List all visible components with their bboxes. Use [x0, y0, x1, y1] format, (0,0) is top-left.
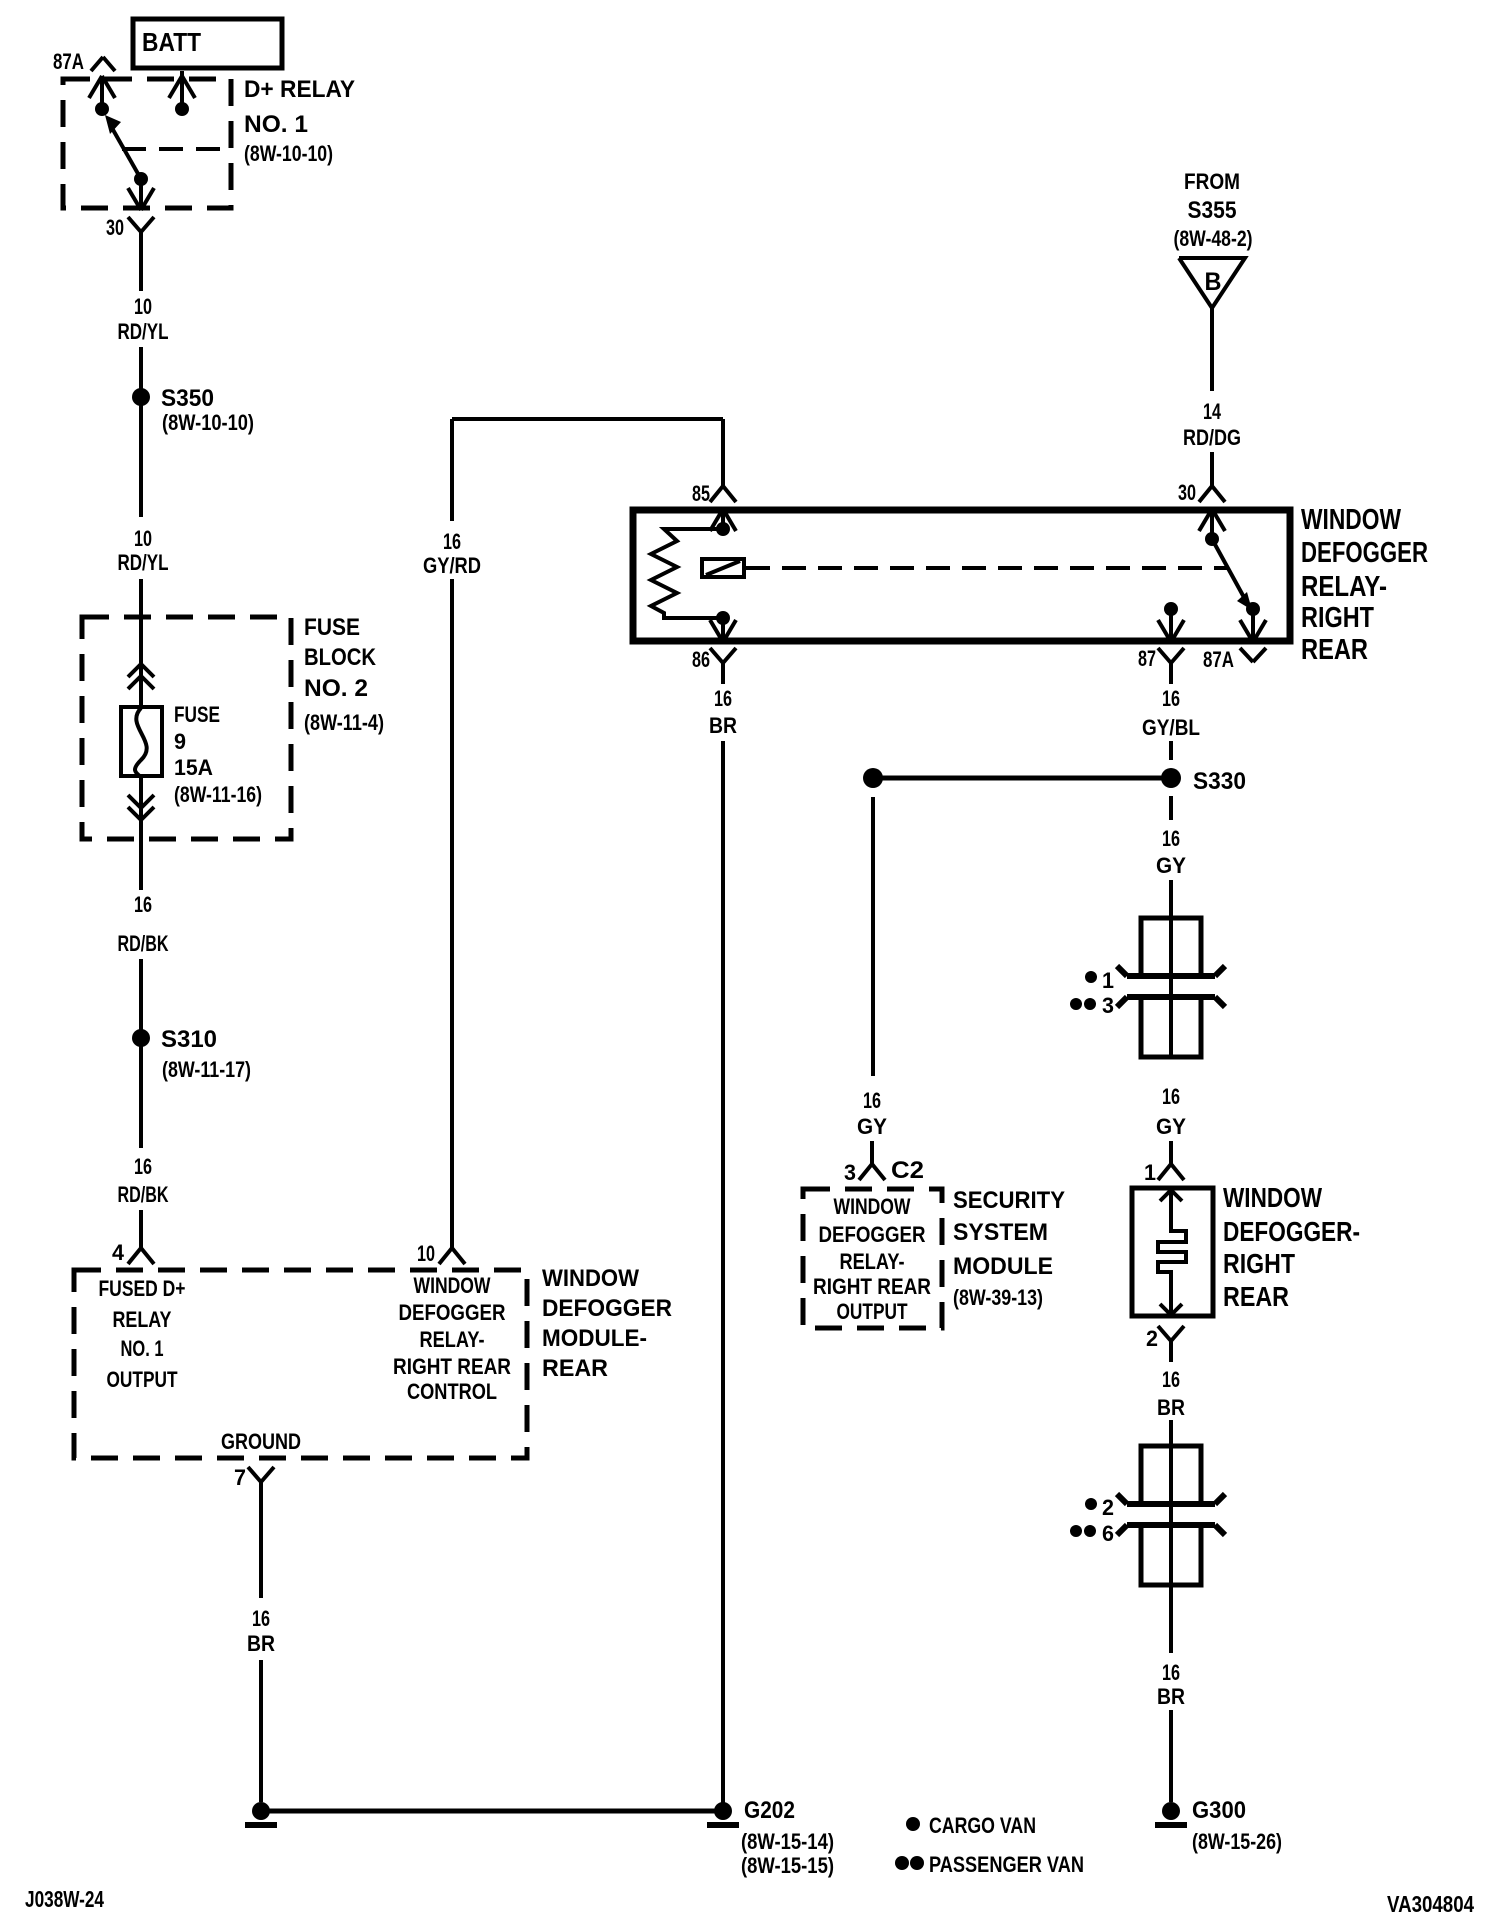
svg-text:RIGHT REAR: RIGHT REAR	[393, 1354, 511, 1379]
svg-text:WINDOW: WINDOW	[542, 1265, 639, 1292]
svg-text:SYSTEM: SYSTEM	[953, 1219, 1048, 1246]
svg-text:RD/BK: RD/BK	[118, 1182, 169, 1207]
svg-text:S330: S330	[1193, 768, 1246, 795]
svg-text:S310: S310	[161, 1026, 217, 1053]
svg-text:16: 16	[443, 529, 461, 554]
svg-text:16: 16	[134, 892, 152, 917]
svg-text:1: 1	[1144, 1160, 1156, 1185]
svg-text:16: 16	[252, 1606, 270, 1631]
svg-text:GY: GY	[857, 1114, 887, 1139]
svg-text:CARGO VAN: CARGO VAN	[929, 1813, 1036, 1838]
svg-text:GY/BL: GY/BL	[1142, 715, 1200, 740]
svg-text:S355: S355	[1188, 197, 1237, 224]
svg-text:BLOCK: BLOCK	[304, 644, 377, 671]
svg-text:RELAY-: RELAY-	[420, 1327, 485, 1352]
svg-text:(8W-15-15): (8W-15-15)	[741, 1853, 834, 1878]
svg-text:WINDOW: WINDOW	[834, 1194, 911, 1219]
svg-text:4: 4	[112, 1240, 125, 1265]
svg-text:WINDOW: WINDOW	[414, 1273, 491, 1298]
svg-text:(8W-15-26): (8W-15-26)	[1192, 1829, 1282, 1854]
svg-text:16: 16	[714, 686, 732, 711]
svg-text:2: 2	[1102, 1495, 1114, 1520]
svg-text:G300: G300	[1192, 1797, 1246, 1824]
svg-text:(8W-10-10): (8W-10-10)	[162, 410, 254, 435]
svg-text:(8W-11-4): (8W-11-4)	[304, 710, 384, 735]
svg-text:GY: GY	[1156, 1114, 1186, 1139]
svg-text:RELAY-: RELAY-	[840, 1249, 905, 1274]
svg-text:BR: BR	[709, 713, 737, 738]
svg-text:DEFOGGER: DEFOGGER	[542, 1295, 672, 1322]
svg-text:REAR: REAR	[1301, 634, 1368, 666]
svg-text:3: 3	[844, 1160, 856, 1185]
svg-text:FUSE: FUSE	[174, 702, 220, 727]
svg-text:10: 10	[134, 526, 152, 551]
svg-text:FROM: FROM	[1184, 169, 1240, 194]
svg-text:RIGHT: RIGHT	[1223, 1248, 1295, 1279]
svg-text:6: 6	[1102, 1521, 1114, 1546]
svg-text:16: 16	[1162, 1084, 1180, 1109]
svg-text:85: 85	[692, 481, 710, 506]
svg-text:S350: S350	[161, 385, 214, 412]
svg-text:RD/DG: RD/DG	[1183, 425, 1241, 450]
svg-text:16: 16	[1162, 1660, 1180, 1685]
svg-text:RIGHT: RIGHT	[1301, 602, 1374, 634]
svg-text:NO. 2: NO. 2	[304, 675, 368, 702]
svg-text:(8W-11-17): (8W-11-17)	[162, 1057, 251, 1082]
svg-text:RD/BK: RD/BK	[118, 931, 169, 956]
svg-text:FUSED D+: FUSED D+	[99, 1276, 186, 1301]
svg-text:RELAY: RELAY	[113, 1307, 172, 1332]
svg-text:(8W-15-14): (8W-15-14)	[741, 1829, 834, 1854]
svg-text:16: 16	[863, 1088, 881, 1113]
svg-text:WINDOW: WINDOW	[1301, 504, 1401, 536]
svg-text:87A: 87A	[53, 49, 84, 74]
svg-text:DEFOGGER: DEFOGGER	[819, 1222, 926, 1247]
svg-text:G202: G202	[744, 1797, 795, 1824]
svg-text:VA304804: VA304804	[1387, 1891, 1474, 1917]
svg-text:FUSE: FUSE	[304, 614, 360, 641]
svg-text:CONTROL: CONTROL	[407, 1379, 497, 1404]
svg-text:16: 16	[1162, 686, 1180, 711]
svg-text:15A: 15A	[174, 755, 213, 780]
svg-text:RD/YL: RD/YL	[118, 319, 169, 344]
svg-text:OUTPUT: OUTPUT	[837, 1299, 908, 1324]
svg-text:NO. 1: NO. 1	[121, 1336, 164, 1361]
svg-text:(8W-48-2): (8W-48-2)	[1174, 226, 1253, 251]
svg-text:(8W-39-13): (8W-39-13)	[953, 1285, 1043, 1310]
svg-text:30: 30	[106, 215, 124, 240]
svg-text:OUTPUT: OUTPUT	[107, 1367, 178, 1392]
svg-text:MODULE: MODULE	[953, 1253, 1053, 1280]
svg-text:16: 16	[1162, 826, 1180, 851]
svg-text:PASSENGER VAN: PASSENGER VAN	[929, 1852, 1084, 1877]
svg-text:D+ RELAY: D+ RELAY	[244, 76, 355, 103]
svg-text:J038W-24: J038W-24	[25, 1886, 104, 1912]
svg-text:86: 86	[692, 647, 710, 672]
svg-text:SECURITY: SECURITY	[953, 1187, 1065, 1214]
svg-text:10: 10	[134, 294, 152, 319]
svg-text:BR: BR	[1157, 1395, 1185, 1420]
svg-text:MODULE-: MODULE-	[542, 1325, 647, 1352]
svg-text:NO. 1: NO. 1	[244, 111, 308, 138]
svg-text:GY/RD: GY/RD	[423, 553, 481, 578]
svg-text:RIGHT REAR: RIGHT REAR	[813, 1274, 931, 1299]
svg-text:(8W-10-10): (8W-10-10)	[244, 141, 333, 166]
svg-text:87A: 87A	[1203, 647, 1234, 672]
svg-text:2: 2	[1146, 1326, 1158, 1351]
svg-text:(8W-11-16): (8W-11-16)	[174, 782, 262, 807]
svg-text:BR: BR	[247, 1631, 275, 1656]
svg-text:RD/YL: RD/YL	[118, 550, 169, 575]
svg-text:BR: BR	[1157, 1684, 1185, 1709]
svg-text:16: 16	[134, 1154, 152, 1179]
svg-text:30: 30	[1178, 480, 1196, 505]
svg-text:B: B	[1205, 268, 1222, 296]
svg-text:C2: C2	[891, 1157, 924, 1184]
svg-text:16: 16	[1162, 1367, 1180, 1392]
svg-text:87: 87	[1138, 646, 1156, 671]
svg-text:7: 7	[234, 1465, 246, 1490]
svg-text:GY: GY	[1156, 853, 1186, 878]
svg-text:DEFOGGER: DEFOGGER	[1301, 537, 1428, 569]
svg-text:RELAY-: RELAY-	[1301, 571, 1387, 603]
svg-text:DEFOGGER-: DEFOGGER-	[1223, 1216, 1360, 1247]
svg-text:GROUND: GROUND	[221, 1429, 301, 1454]
svg-text:DEFOGGER: DEFOGGER	[399, 1300, 506, 1325]
svg-text:WINDOW: WINDOW	[1223, 1182, 1322, 1213]
svg-text:3: 3	[1102, 993, 1114, 1018]
svg-text:1: 1	[1102, 968, 1114, 993]
svg-text:9: 9	[174, 729, 186, 754]
svg-text:REAR: REAR	[1223, 1281, 1289, 1312]
svg-text:BATT: BATT	[142, 27, 201, 57]
svg-text:14: 14	[1203, 399, 1222, 424]
svg-text:REAR: REAR	[542, 1355, 608, 1382]
svg-text:10: 10	[417, 1241, 435, 1266]
